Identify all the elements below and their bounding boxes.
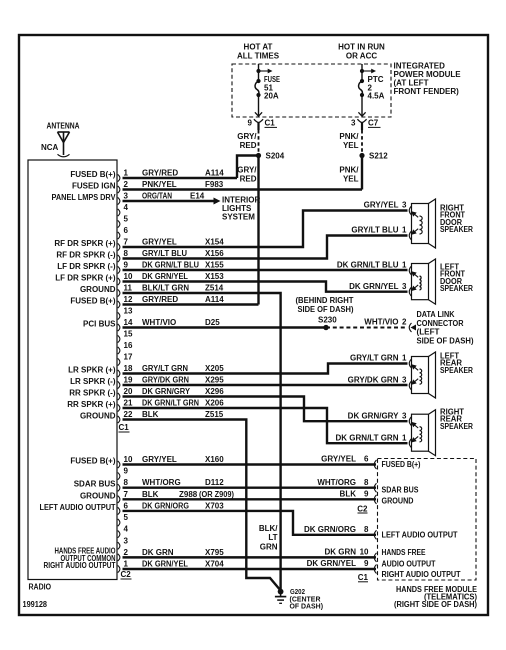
svg-text:ANTENNA: ANTENNA <box>47 122 80 131</box>
svg-text:GROUND: GROUND <box>80 285 116 294</box>
svg-text:199128: 199128 <box>23 600 48 609</box>
svg-text:4: 4 <box>124 203 129 212</box>
svg-text:WHT/VIO: WHT/VIO <box>142 318 176 327</box>
svg-text:X155: X155 <box>205 261 224 270</box>
svg-text:X154: X154 <box>205 238 224 247</box>
svg-text:1: 1 <box>124 169 129 178</box>
svg-text:WHT/ORG: WHT/ORG <box>142 478 181 487</box>
svg-text:D25: D25 <box>205 318 220 327</box>
svg-text:GRY/YEL: GRY/YEL <box>321 455 356 464</box>
svg-text:4.5A: 4.5A <box>368 92 385 101</box>
svg-text:2: 2 <box>124 180 129 189</box>
svg-text:FRONT FENDER): FRONT FENDER) <box>394 87 460 96</box>
svg-text:18: 18 <box>124 364 133 373</box>
svg-text:DK GRN/GRY: DK GRN/GRY <box>142 387 191 396</box>
svg-text:6: 6 <box>124 226 129 235</box>
svg-text:GRY/RED: GRY/RED <box>142 295 178 304</box>
svg-text:PANEL LMPS DRV: PANEL LMPS DRV <box>52 193 117 202</box>
svg-text:DK GRN: DK GRN <box>324 548 356 557</box>
svg-text:DK GRN/LT GRN: DK GRN/LT GRN <box>142 399 199 408</box>
svg-text:SIDE OF DASH): SIDE OF DASH) <box>298 305 354 314</box>
svg-text:DATA LINK: DATA LINK <box>417 310 455 319</box>
svg-text:C1: C1 <box>119 423 130 432</box>
svg-text:BLK: BLK <box>142 490 159 499</box>
svg-text:YEL: YEL <box>343 141 359 150</box>
svg-text:LT: LT <box>268 533 277 542</box>
svg-text:10: 10 <box>124 455 133 464</box>
svg-text:LEFT AUDIO OUTPUT: LEFT AUDIO OUTPUT <box>40 503 116 512</box>
svg-text:OUTPUT COMMON: OUTPUT COMMON <box>61 554 116 563</box>
svg-text:3: 3 <box>402 376 407 385</box>
svg-text:SDAR BUS: SDAR BUS <box>74 480 116 489</box>
svg-text:F983: F983 <box>205 180 224 189</box>
svg-text:2: 2 <box>124 548 129 557</box>
svg-text:5: 5 <box>124 215 129 224</box>
svg-text:X703: X703 <box>205 501 224 510</box>
svg-text:SPEAKER: SPEAKER <box>440 225 473 234</box>
svg-text:X296: X296 <box>205 387 224 396</box>
svg-text:WHT/VIO: WHT/VIO <box>364 318 398 327</box>
svg-text:2: 2 <box>402 318 407 327</box>
svg-text:LEFT AUDIO OUTPUT: LEFT AUDIO OUTPUT <box>382 531 458 540</box>
svg-text:GRY/LT BLU: GRY/LT BLU <box>351 226 398 235</box>
svg-text:13: 13 <box>124 307 133 316</box>
svg-text:C1: C1 <box>358 573 369 582</box>
svg-text:3: 3 <box>124 192 129 201</box>
svg-text:DK GRN/LT GRN: DK GRN/LT GRN <box>336 433 399 442</box>
svg-text:8: 8 <box>364 478 369 487</box>
svg-text:1: 1 <box>124 559 129 568</box>
svg-text:A114: A114 <box>205 169 224 178</box>
svg-text:GRY/YEL: GRY/YEL <box>142 455 177 464</box>
svg-text:4: 4 <box>124 525 129 534</box>
svg-text:HOT IN RUN: HOT IN RUN <box>338 43 385 52</box>
svg-text:DK GRN/ORG: DK GRN/ORG <box>142 501 189 510</box>
svg-text:8: 8 <box>364 525 369 534</box>
svg-text:1: 1 <box>402 433 407 442</box>
svg-text:GRY/LT BLU: GRY/LT BLU <box>142 249 187 258</box>
svg-text:A114: A114 <box>205 295 224 304</box>
svg-text:3: 3 <box>351 119 356 128</box>
svg-text:X156: X156 <box>205 249 224 258</box>
svg-text:GROUND: GROUND <box>80 491 116 500</box>
svg-text:FUSED B(+): FUSED B(+) <box>70 297 115 306</box>
svg-text:8: 8 <box>124 478 129 487</box>
svg-text:22: 22 <box>124 410 133 419</box>
svg-text:AUDIO OUTPUT: AUDIO OUTPUT <box>382 559 436 568</box>
svg-text:19: 19 <box>124 376 133 385</box>
svg-text:FUSED B(+): FUSED B(+) <box>70 457 115 466</box>
svg-text:3: 3 <box>402 282 407 291</box>
svg-text:1: 1 <box>402 261 407 270</box>
svg-text:S204: S204 <box>266 152 285 161</box>
svg-text:Z515: Z515 <box>205 410 224 419</box>
svg-text:YEL: YEL <box>343 175 359 184</box>
svg-text:GRY/DK GRN: GRY/DK GRN <box>348 376 399 385</box>
svg-text:Z514: Z514 <box>205 284 224 293</box>
svg-text:(BEHIND RIGHT: (BEHIND RIGHT <box>296 296 354 305</box>
svg-text:LR SPKR (-): LR SPKR (-) <box>70 377 116 386</box>
svg-text:9: 9 <box>248 119 253 128</box>
svg-text:NCA: NCA <box>41 143 59 152</box>
svg-text:(LEFT: (LEFT <box>417 328 440 337</box>
svg-text:S212: S212 <box>369 152 388 161</box>
svg-text:E14: E14 <box>190 192 205 201</box>
svg-text:PNK/: PNK/ <box>339 132 359 141</box>
svg-text:16: 16 <box>124 341 133 350</box>
svg-text:GRY/LT GRN: GRY/LT GRN <box>350 354 399 363</box>
svg-text:DK GRN/LT BLU: DK GRN/LT BLU <box>337 261 399 270</box>
svg-text:RR SPKR (+): RR SPKR (+) <box>67 400 116 409</box>
svg-text:LR SPKR (+): LR SPKR (+) <box>68 366 116 375</box>
svg-text:GRY/DK GRN: GRY/DK GRN <box>142 376 189 385</box>
svg-text:RF DR SPKR (-): RF DR SPKR (-) <box>56 251 115 260</box>
svg-text:17: 17 <box>124 353 133 362</box>
svg-text:7: 7 <box>124 490 129 499</box>
svg-text:LF DR SPKR (-): LF DR SPKR (-) <box>57 262 116 271</box>
svg-text:5: 5 <box>124 513 129 522</box>
svg-text:10: 10 <box>124 272 133 281</box>
svg-text:Z988: Z988 <box>179 490 198 499</box>
svg-text:GROUND: GROUND <box>382 497 414 506</box>
svg-text:DK GRN/YEL: DK GRN/YEL <box>142 559 188 568</box>
svg-text:6: 6 <box>124 501 129 510</box>
svg-text:FUSED B(+): FUSED B(+) <box>382 460 421 469</box>
svg-text:GRY/YEL: GRY/YEL <box>364 201 399 210</box>
svg-text:GRY/LT GRN: GRY/LT GRN <box>142 364 188 373</box>
svg-text:WHT/ORG: WHT/ORG <box>317 478 356 487</box>
svg-text:X153: X153 <box>205 272 224 281</box>
svg-text:HOT AT: HOT AT <box>244 43 273 52</box>
svg-text:GRY/YEL: GRY/YEL <box>142 238 177 247</box>
svg-text:DK GRN/YEL: DK GRN/YEL <box>307 559 356 568</box>
svg-text:SDAR BUS: SDAR BUS <box>382 486 420 495</box>
svg-text:BLK/: BLK/ <box>259 524 278 533</box>
svg-text:11: 11 <box>124 284 133 293</box>
svg-text:SYSTEM: SYSTEM <box>222 213 255 222</box>
svg-text:9: 9 <box>124 261 129 270</box>
svg-text:RR SPKR (-): RR SPKR (-) <box>69 389 116 398</box>
svg-text:S230: S230 <box>318 316 337 325</box>
svg-text:9: 9 <box>124 467 129 476</box>
svg-text:BLK: BLK <box>340 490 357 499</box>
svg-text:SPEAKER: SPEAKER <box>440 422 473 431</box>
svg-text:RF DR SPKR (+): RF DR SPKR (+) <box>54 239 115 248</box>
svg-text:FUSED B(+): FUSED B(+) <box>70 170 115 179</box>
svg-text:9: 9 <box>364 490 369 499</box>
svg-text:FUSED IGN: FUSED IGN <box>72 182 116 191</box>
svg-text:C7: C7 <box>368 119 379 128</box>
svg-text:8: 8 <box>124 249 129 258</box>
svg-text:SPEAKER: SPEAKER <box>440 366 473 375</box>
svg-text:X295: X295 <box>205 376 224 385</box>
svg-text:X160: X160 <box>205 455 224 464</box>
svg-text:DK GRN/YEL: DK GRN/YEL <box>349 282 398 291</box>
svg-text:20: 20 <box>124 387 133 396</box>
svg-text:9: 9 <box>364 559 369 568</box>
svg-text:GRN: GRN <box>260 542 278 551</box>
svg-text:X206: X206 <box>205 399 224 408</box>
svg-text:RADIO: RADIO <box>29 583 52 592</box>
svg-text:1: 1 <box>402 226 407 235</box>
svg-text:X205: X205 <box>205 364 224 373</box>
svg-text:LF DR SPKR (+): LF DR SPKR (+) <box>55 274 116 283</box>
svg-text:21: 21 <box>124 399 133 408</box>
svg-text:C1: C1 <box>265 119 276 128</box>
svg-text:DK GRN/LT BLU: DK GRN/LT BLU <box>142 261 199 270</box>
svg-text:14: 14 <box>124 318 133 327</box>
svg-text:PNK/: PNK/ <box>339 166 359 175</box>
svg-text:C2: C2 <box>357 504 368 513</box>
svg-text:SIDE OF DASH): SIDE OF DASH) <box>417 336 474 345</box>
svg-text:C2: C2 <box>121 570 132 579</box>
svg-text:DK GRN/ORG: DK GRN/ORG <box>304 525 356 534</box>
svg-text:BLK: BLK <box>142 410 159 419</box>
svg-text:ALL TIMES: ALL TIMES <box>237 52 280 61</box>
svg-text:(RIGHT SIDE OF DASH): (RIGHT SIDE OF DASH) <box>394 600 477 609</box>
svg-text:6: 6 <box>364 455 369 464</box>
svg-text:BLK/LT GRN: BLK/LT GRN <box>142 284 189 293</box>
svg-text:HANDS FREE: HANDS FREE <box>382 548 427 557</box>
svg-text:12: 12 <box>124 295 133 304</box>
svg-text:7: 7 <box>124 238 129 247</box>
svg-text:GRY/: GRY/ <box>237 132 257 141</box>
svg-text:OF DASH): OF DASH) <box>290 602 324 611</box>
svg-text:1: 1 <box>402 354 407 363</box>
svg-text:(OR Z909): (OR Z909) <box>199 490 234 499</box>
svg-text:GRY/RED: GRY/RED <box>142 169 178 178</box>
svg-text:20A: 20A <box>264 92 279 101</box>
svg-text:CONNECTOR: CONNECTOR <box>417 319 464 328</box>
svg-text:GRY/: GRY/ <box>237 166 257 175</box>
svg-text:D112: D112 <box>205 478 224 487</box>
svg-text:GROUND: GROUND <box>80 412 116 421</box>
svg-text:OR ACC: OR ACC <box>346 52 377 61</box>
svg-text:ORG/TAN: ORG/TAN <box>142 192 172 201</box>
svg-text:RIGHT AUDIO OUTPUT: RIGHT AUDIO OUTPUT <box>382 570 461 579</box>
svg-text:X704: X704 <box>205 559 224 568</box>
svg-text:3: 3 <box>402 411 407 420</box>
svg-text:10: 10 <box>360 548 369 557</box>
svg-text:3: 3 <box>402 201 407 210</box>
svg-text:RED: RED <box>240 141 257 150</box>
svg-text:DK GRN/YEL: DK GRN/YEL <box>142 272 188 281</box>
svg-text:15: 15 <box>124 330 133 339</box>
svg-text:X795: X795 <box>205 548 224 557</box>
svg-text:DK GRN: DK GRN <box>142 548 174 557</box>
svg-text:DK GRN/GRY: DK GRN/GRY <box>348 411 399 420</box>
svg-text:SPEAKER: SPEAKER <box>440 284 473 293</box>
svg-text:3: 3 <box>124 536 129 545</box>
svg-text:PCI BUS: PCI BUS <box>83 320 116 329</box>
svg-text:RED: RED <box>240 175 257 184</box>
svg-text:PNK/YEL: PNK/YEL <box>142 180 177 189</box>
